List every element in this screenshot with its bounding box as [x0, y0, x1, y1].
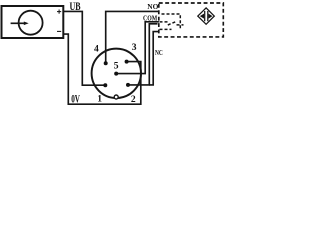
connector pin 5 contact dot — [114, 72, 118, 76]
switch K1 COM contact line (dashed) — [160, 21, 169, 23]
svg-text:0V: 0V — [71, 94, 80, 106]
connector pin 4 contact dot — [104, 61, 108, 65]
connector X1 M12 face circle — [92, 49, 141, 98]
switch K1 lever-actuator link (dashed) — [177, 24, 184, 26]
proximity sensor symbol right triangle — [209, 14, 213, 19]
connector pin 2 contact dot — [126, 83, 130, 87]
power supply G1 arrow head — [24, 22, 29, 26]
power supply G1 arrow shaft — [11, 22, 25, 24]
wire net 0V: - terminal to connector pin 3 — [63, 34, 141, 104]
svg-text:UB: UB — [70, 1, 81, 14]
wire net NC second riser to switch box — [149, 32, 159, 85]
sensor S1 enclosure (dashed box) — [159, 3, 224, 37]
wire net NO: connector pin 4 to switch box — [106, 11, 159, 63]
switch K1 actuator link (dashed) — [162, 14, 181, 28]
proximity sensor symbol left triangle — [200, 14, 204, 19]
connector pin 1 contact dot — [103, 83, 107, 87]
wire net UB: + terminal to connector pin 1 — [63, 11, 105, 85]
power supply G1 source circle — [19, 11, 43, 35]
proximity sensor symbol diamond outline — [198, 8, 215, 24]
wire net NC: connector pin 2 riser to switch box — [128, 24, 158, 85]
power supply G1 box — [2, 6, 64, 38]
switch K1 lever (dashed) — [168, 22, 176, 25]
svg-text:COM: COM — [143, 13, 157, 22]
connector X1 keying notch — [114, 95, 118, 99]
svg-text:5: 5 — [114, 61, 119, 72]
svg-text:3: 3 — [132, 42, 137, 53]
svg-text:4: 4 — [94, 43, 99, 54]
svg-text:NO: NO — [147, 2, 158, 11]
wire net COM: connector pin 5 to switch box — [116, 22, 159, 74]
svg-text:2: 2 — [131, 94, 136, 105]
terminal - of G1 — [57, 30, 61, 32]
switch K1 NC contact line (dashed) — [160, 28, 172, 30]
terminal + of G1 — [57, 10, 61, 14]
svg-text:1: 1 — [97, 94, 102, 105]
connector pin 3 contact dot — [125, 60, 129, 64]
proximity sensor symbol bars — [204, 11, 206, 21]
svg-text:NC: NC — [155, 48, 163, 57]
